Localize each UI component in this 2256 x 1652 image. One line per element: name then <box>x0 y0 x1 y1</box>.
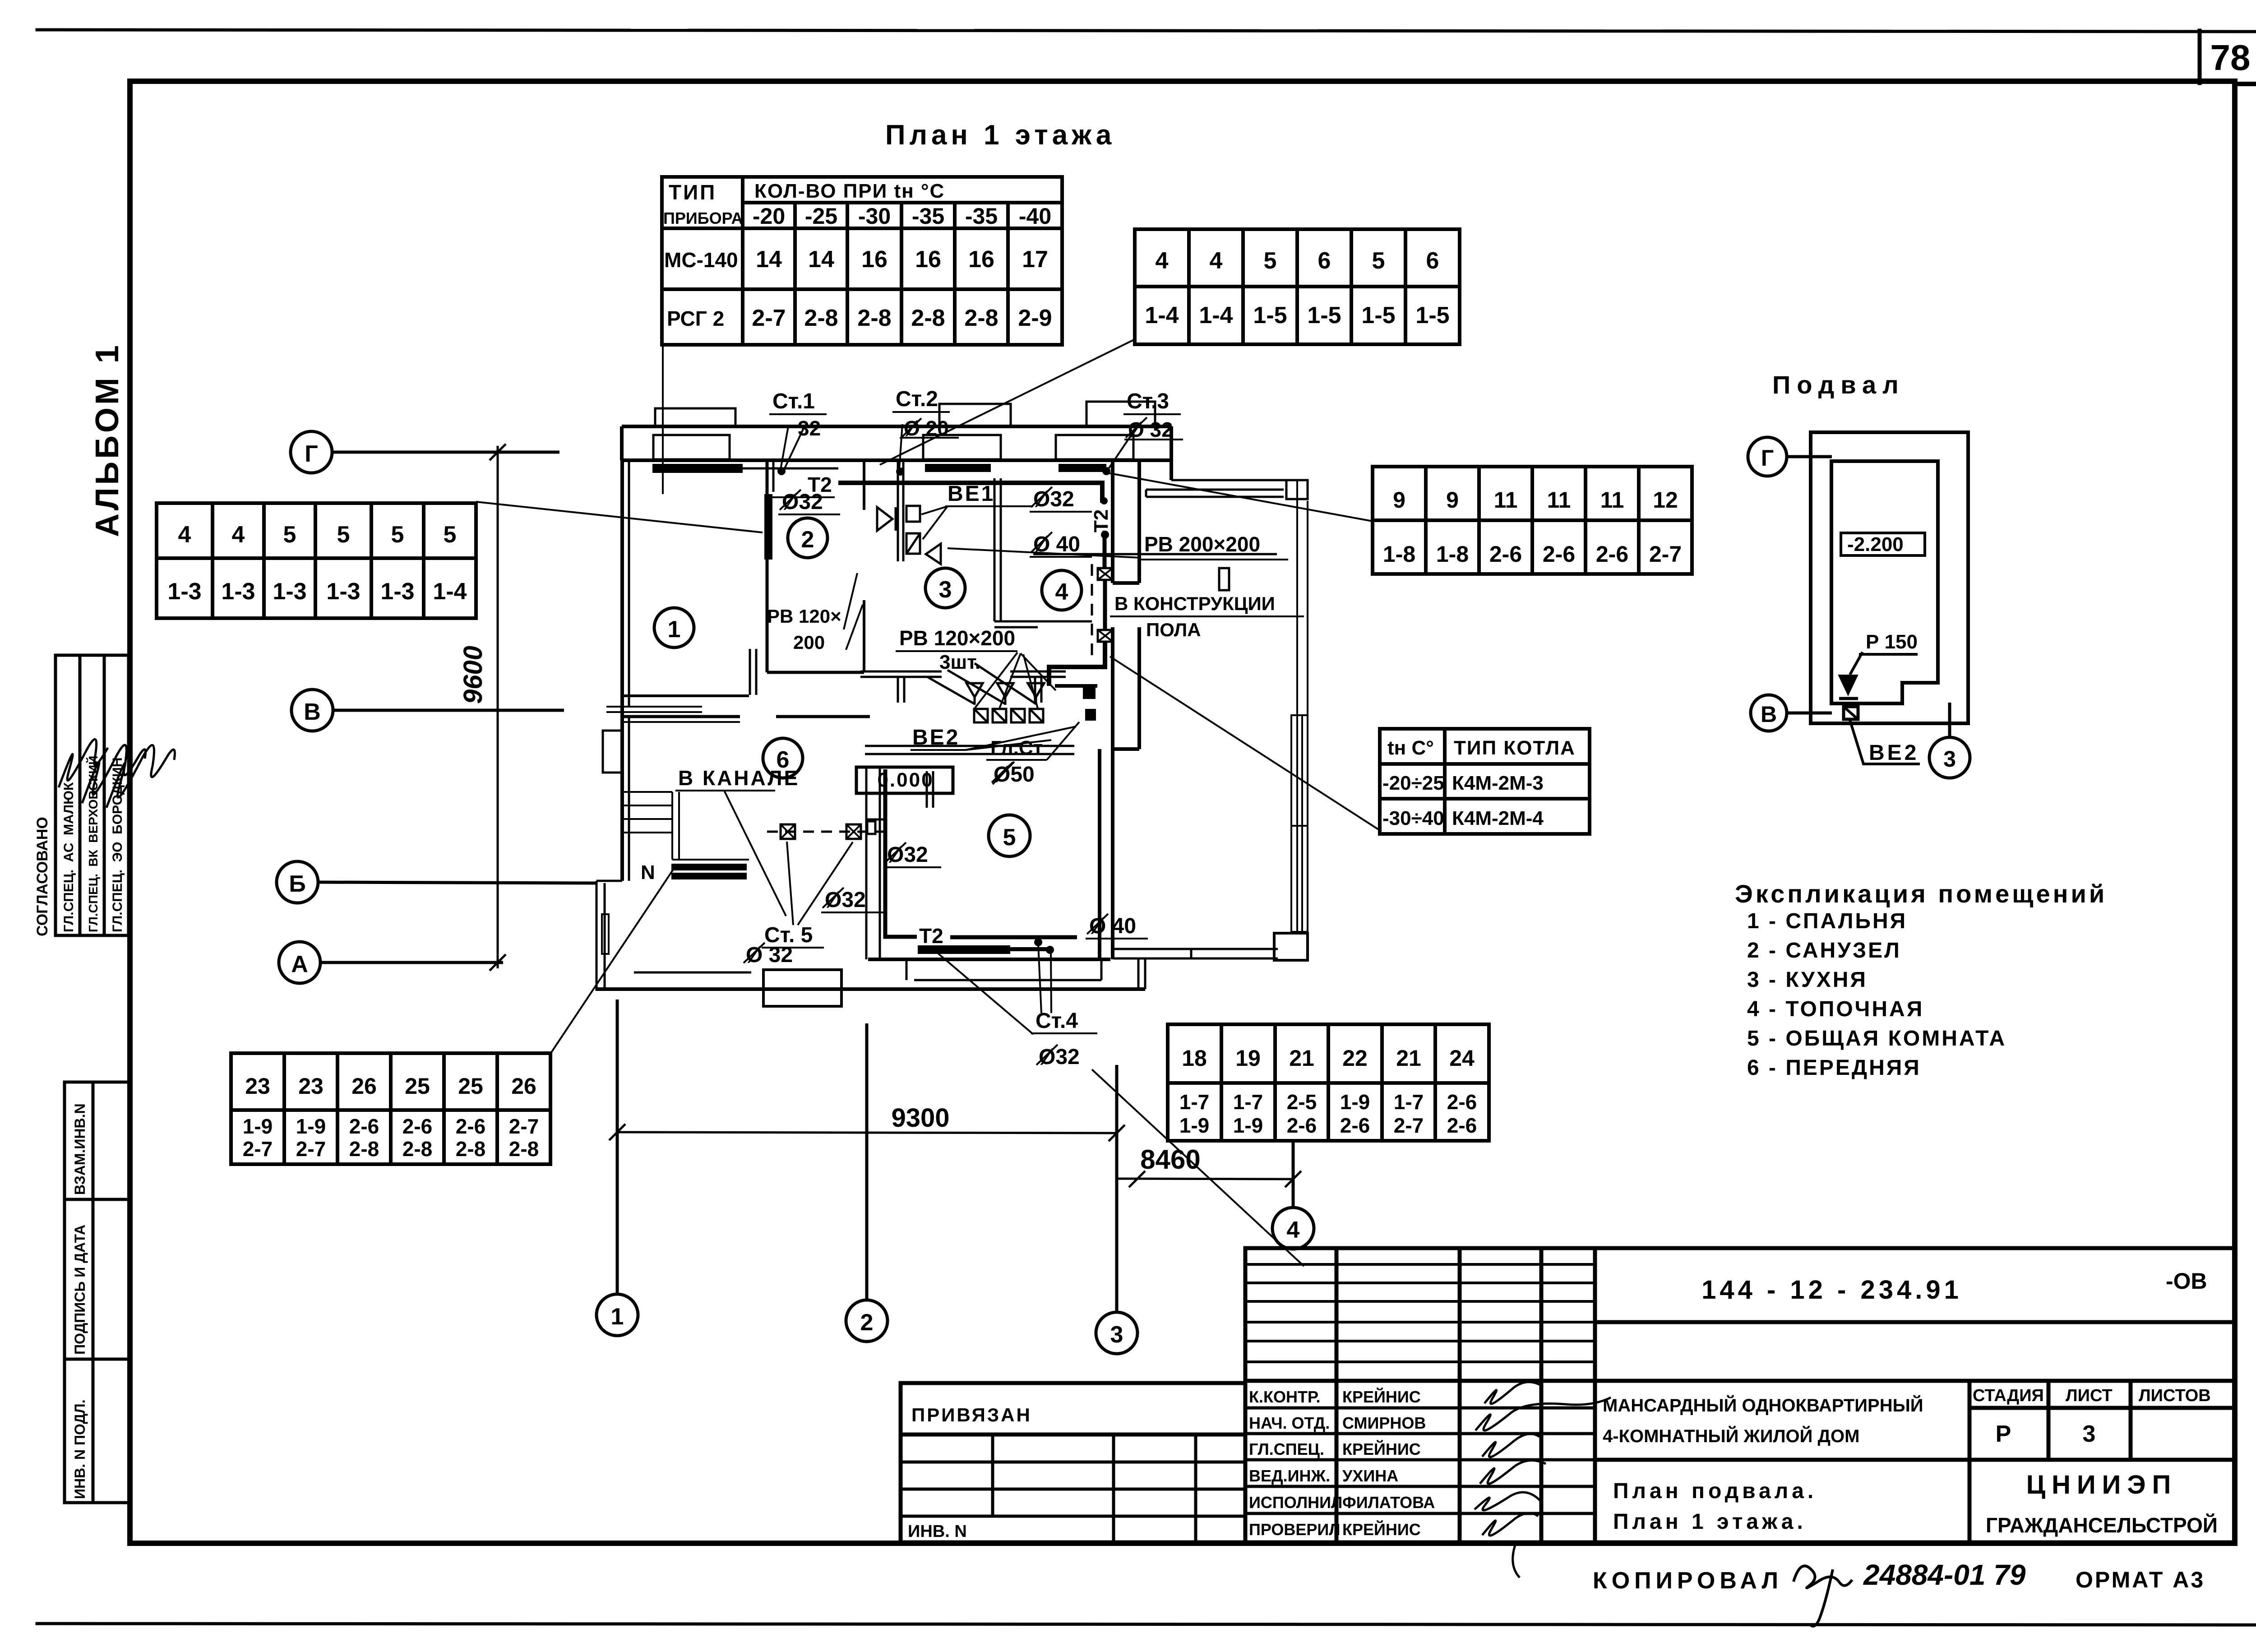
svg-text:11: 11 <box>1547 487 1571 513</box>
svg-text:В: В <box>304 699 321 725</box>
axis circle А <box>279 942 503 983</box>
stairs steps <box>622 792 749 860</box>
svg-text:Ст.4: Ст.4 <box>1036 1009 1078 1033</box>
svg-text:5: 5 <box>1372 248 1385 274</box>
svg-text:9300: 9300 <box>891 1103 949 1133</box>
kitchen vent T symbol 1 <box>860 671 942 703</box>
boiler elbow pipe <box>1049 642 1105 686</box>
svg-text:2-6: 2-6 <box>349 1115 379 1138</box>
small door rect left porch <box>602 914 609 954</box>
svg-text:2-9: 2-9 <box>1018 305 1052 331</box>
копировал footer <box>1593 1559 2205 1594</box>
radiator room2 vertical <box>764 494 772 560</box>
svg-text:17: 17 <box>1022 246 1048 273</box>
room2 left wall <box>766 460 769 562</box>
svg-text:ОРМАТ А3: ОРМАТ А3 <box>2076 1567 2205 1592</box>
room circle 1 <box>654 608 694 648</box>
room1 bottom wall <box>624 694 749 697</box>
sidebar lower box (инв/подпись) <box>65 1082 130 1503</box>
svg-text:План 1 этажа.: План 1 этажа. <box>1613 1510 1807 1534</box>
svg-text:5 - ОБЩАЯ КОМНАТА: 5 - ОБЩАЯ КОМНАТА <box>1747 1027 2006 1050</box>
svg-text:КРЕЙНИС: КРЕЙНИС <box>1342 1439 1421 1458</box>
radiator room3 top <box>925 464 991 472</box>
axis circle 3 bottom <box>1096 1065 1137 1354</box>
svg-text:16: 16 <box>968 246 994 273</box>
svg-text:5: 5 <box>444 522 457 548</box>
svg-text:144 - 12 - 234.91: 144 - 12 - 234.91 <box>1701 1275 1962 1305</box>
extension top wall <box>1146 480 1308 499</box>
svg-text:ТИП: ТИП <box>669 180 717 204</box>
name rows left labels <box>1249 1387 1435 1539</box>
svg-text:14: 14 <box>808 246 834 273</box>
svg-text:1-7: 1-7 <box>1179 1090 1209 1114</box>
svg-text:ВЗАМ.ИНВ.N: ВЗАМ.ИНВ.N <box>72 1103 88 1195</box>
vertical dimension 9600 <box>490 444 506 971</box>
svg-text:Гл.Ст: Гл.Ст <box>990 737 1043 759</box>
svg-text:2-6: 2-6 <box>1287 1114 1317 1137</box>
Ст.1 label <box>772 389 821 440</box>
svg-text:УХИНА: УХИНА <box>1342 1467 1398 1485</box>
svg-text:ИНВ. N: ИНВ. N <box>908 1522 967 1541</box>
ВЕ2 leader <box>1850 720 1920 764</box>
стадия лист листов header <box>1973 1386 2211 1405</box>
horizontal dimension 9300 <box>609 1124 1125 1141</box>
sidebar signatures squiggles <box>59 739 175 808</box>
svg-text:1-3: 1-3 <box>380 578 414 605</box>
svg-text:1-9: 1-9 <box>296 1115 326 1138</box>
pipe stub from radiator1 <box>743 467 838 470</box>
ВЕ1 square upper <box>906 506 920 522</box>
svg-text:14: 14 <box>756 246 782 273</box>
level mark box -2.200 <box>1841 533 1925 555</box>
svg-text:К4М-2М-3: К4М-2М-3 <box>1452 772 1544 794</box>
svg-text:ЛИСТ: ЛИСТ <box>2066 1386 2113 1405</box>
svg-text:3шт.: 3шт. <box>939 651 980 673</box>
thin revision rows <box>1245 1264 1595 1362</box>
svg-text:1-3: 1-3 <box>167 578 201 605</box>
svg-text:2-8: 2-8 <box>402 1137 432 1161</box>
svg-text:21: 21 <box>1396 1046 1421 1071</box>
svg-text:СТАДИЯ: СТАДИЯ <box>1973 1386 2044 1405</box>
room4 inner wall horizontal <box>994 621 1092 627</box>
svg-text:18: 18 <box>1182 1046 1207 1071</box>
svg-text:В КОНСТРУКЦИИ: В КОНСТРУКЦИИ <box>1114 593 1275 614</box>
ВЕ1 flag lower <box>926 544 941 564</box>
bottom step band <box>906 959 1101 980</box>
svg-text:АЛЬБОМ 1: АЛЬБОМ 1 <box>89 342 125 537</box>
canopy double line left <box>606 707 702 712</box>
svg-text:32: 32 <box>798 416 821 440</box>
ВЕ1 label <box>948 482 995 506</box>
svg-text:РВ 200×200: РВ 200×200 <box>1144 532 1260 556</box>
svg-text:Ст.2: Ст.2 <box>896 387 938 411</box>
svg-text:2-7: 2-7 <box>509 1115 539 1138</box>
svg-text:2: 2 <box>801 527 814 553</box>
radiator room4 top <box>1059 464 1106 472</box>
svg-text:Г: Г <box>305 441 318 467</box>
svg-text:1-4: 1-4 <box>1199 302 1233 329</box>
svg-text:КРЕЙНИС: КРЕЙНИС <box>1342 1520 1421 1539</box>
svg-text:ФИЛАТОВА: ФИЛАТОВА <box>1342 1493 1435 1512</box>
svg-text:11: 11 <box>1494 487 1518 513</box>
room circle 2 <box>788 518 828 558</box>
svg-text:План подвала.: План подвала. <box>1613 1479 1817 1503</box>
svg-text:Подвал: Подвал <box>1772 370 1905 399</box>
svg-text:ТИП КОТЛА: ТИП КОТЛА <box>1454 737 1576 759</box>
basement drain square ВЕ2 <box>1844 707 1858 719</box>
svg-text:5: 5 <box>1003 824 1016 851</box>
svg-text:2-6: 2-6 <box>1543 541 1575 567</box>
svg-text:2-6: 2-6 <box>1489 541 1522 567</box>
svg-text:Р: Р <box>1996 1421 2011 1447</box>
svg-text:4: 4 <box>178 522 191 548</box>
svg-text:5: 5 <box>337 522 350 548</box>
page number box divider <box>2198 31 2202 83</box>
svg-text:1-7: 1-7 <box>1394 1090 1424 1114</box>
svg-text:РВ 120×200: РВ 120×200 <box>899 626 1015 650</box>
svg-text:3: 3 <box>1110 1322 1123 1348</box>
svg-text:-30: -30 <box>858 204 891 229</box>
frame top extension to sheet edge <box>2235 82 2256 86</box>
svg-text:3: 3 <box>2083 1421 2096 1447</box>
label underlines <box>675 497 1304 1033</box>
chimney block 1 in wall <box>653 408 735 459</box>
chimney block 2 in wall <box>923 404 1011 459</box>
leader table C to plan <box>476 502 763 532</box>
house right wall double <box>1113 460 1139 583</box>
axis circle В <box>291 689 564 731</box>
svg-text:25: 25 <box>405 1074 430 1099</box>
svg-text:ЛИСТОВ: ЛИСТОВ <box>2139 1386 2211 1405</box>
svg-text:1-5: 1-5 <box>1253 302 1287 329</box>
svg-text:А: А <box>291 951 308 977</box>
svg-text:4-КОМНАТНЫЙ ЖИЛОЙ ДОМ: 4-КОМНАТНЫЙ ЖИЛОЙ ДОМ <box>1603 1425 1859 1446</box>
T2 main pipe top <box>838 483 1102 503</box>
svg-text:Т2: Т2 <box>919 924 943 948</box>
привязан box <box>901 1383 1245 1542</box>
left revision columns <box>1335 1248 1339 1542</box>
leader table D to radiators <box>551 864 677 1052</box>
svg-text:ПОДПИСЬ И ДАТА: ПОДПИСЬ И ДАТА <box>72 1225 88 1355</box>
leader table F to plan <box>1108 473 1373 521</box>
svg-text:12: 12 <box>1653 487 1678 513</box>
svg-text:1-3: 1-3 <box>273 578 306 605</box>
svg-text:24884-01 79: 24884-01 79 <box>1863 1559 2026 1591</box>
ВЕ1 flag upper <box>877 507 892 531</box>
basement axis circle Г <box>1748 437 1832 476</box>
svg-text:19: 19 <box>1235 1046 1261 1071</box>
svg-text:Г: Г <box>1761 445 1774 471</box>
svg-text:9: 9 <box>1446 487 1459 513</box>
axis circle 1 bottom <box>596 1000 638 1336</box>
svg-text:КОЛ-ВО ПРИ tн °С: КОЛ-ВО ПРИ tн °С <box>754 180 945 202</box>
svg-text:КОПИРОВАЛ: КОПИРОВАЛ <box>1593 1568 1783 1594</box>
basement outer wall <box>1811 432 1968 723</box>
svg-text:23: 23 <box>298 1074 324 1099</box>
svg-text:4: 4 <box>232 522 245 548</box>
bottom porch rect <box>763 970 841 1006</box>
svg-text:ВЕ2: ВЕ2 <box>1869 741 1919 765</box>
chimney block 3 in wall <box>1056 402 1155 459</box>
svg-text:1-9: 1-9 <box>243 1115 273 1138</box>
hall top wall <box>622 717 870 722</box>
svg-text:1-8: 1-8 <box>1436 541 1469 567</box>
svg-text:5: 5 <box>391 522 404 548</box>
room circle 3 <box>925 568 965 608</box>
bottom wall right segment inner <box>868 958 1110 961</box>
leader table A to plan <box>662 345 664 494</box>
kitchen room5 divider <box>865 746 1074 754</box>
svg-text:ПРОВЕРИЛ: ПРОВЕРИЛ <box>1249 1520 1341 1539</box>
svg-text:0.000: 0.000 <box>877 769 934 791</box>
sheet bottom thin border line <box>37 1624 2256 1625</box>
svg-text:2-7: 2-7 <box>243 1137 273 1161</box>
РВ200х200 leader arrow <box>948 548 1141 558</box>
svg-text:24: 24 <box>1449 1046 1475 1071</box>
title block outer <box>1245 1248 2234 1542</box>
name rows <box>1245 1379 2234 1383</box>
svg-text:Р 150: Р 150 <box>1866 631 1918 653</box>
svg-text:МС-140: МС-140 <box>664 248 738 272</box>
svg-text:2 - САНУЗЕЛ: 2 - САНУЗЕЛ <box>1747 939 1901 963</box>
top wall outer line <box>622 425 1171 428</box>
svg-text:6 - ПЕРЕДНЯЯ: 6 - ПЕРЕДНЯЯ <box>1747 1056 1921 1080</box>
leader В КАНАЛЕ <box>724 791 786 916</box>
Р150 leader line <box>1850 652 1918 675</box>
svg-text:1-4: 1-4 <box>433 578 467 605</box>
svg-text:-25: -25 <box>805 204 837 229</box>
horizontal dimension 8460 <box>1117 1171 1301 1187</box>
svg-text:РСГ 2: РСГ 2 <box>667 307 724 330</box>
svg-text:ВЕ1: ВЕ1 <box>948 482 995 506</box>
room3 left wall <box>898 460 903 561</box>
svg-text:6: 6 <box>1318 248 1331 274</box>
basement axis circle 3 <box>1929 703 1970 778</box>
svg-text:16: 16 <box>915 246 941 273</box>
svg-text:78: 78 <box>2210 37 2251 78</box>
axis circle 2 bottom <box>846 1023 888 1342</box>
room2 bottom wall <box>767 671 864 674</box>
svg-text:2-5: 2-5 <box>1287 1090 1317 1114</box>
svg-text:tн С°: tн С° <box>1387 737 1434 759</box>
svg-text:НАЧ. ОТД.: НАЧ. ОТД. <box>1249 1414 1330 1432</box>
radiator room6 lower bar <box>671 873 747 879</box>
bottom wall outer long line <box>596 987 1145 991</box>
svg-text:В КАНАЛЕ: В КАНАЛЕ <box>678 766 800 790</box>
sidebar upper box (согласовано signatures) <box>55 655 129 935</box>
basement axis circle В <box>1751 695 1832 731</box>
svg-text:N: N <box>641 861 655 884</box>
partition stub room1/room6 <box>750 649 756 695</box>
funnels leader <box>927 663 1036 704</box>
T2 pipe valve top <box>1098 568 1113 580</box>
svg-text:3: 3 <box>1943 746 1956 772</box>
svg-text:1-5: 1-5 <box>1361 302 1395 329</box>
axis circle Б <box>277 861 596 903</box>
svg-text:11: 11 <box>1600 487 1624 513</box>
svg-text:1-7: 1-7 <box>1233 1090 1263 1114</box>
svg-text:8460: 8460 <box>1140 1144 1200 1175</box>
room5 right side walls <box>1100 627 1139 959</box>
svg-text:Ст.3: Ст.3 <box>1127 389 1169 413</box>
svg-text:ГЛ.СПЕЦ.: ГЛ.СПЕЦ. <box>1249 1440 1324 1458</box>
radiator room5 bottom <box>918 945 1010 954</box>
drain black square <box>1085 709 1096 721</box>
wall connector extension bottom <box>1138 958 1145 989</box>
svg-text:4 - ТОПОЧНАЯ: 4 - ТОПОЧНАЯ <box>1747 997 1924 1021</box>
stage/sheet header <box>1968 1381 1972 1542</box>
junction dots <box>777 467 1110 954</box>
svg-text:2-6: 2-6 <box>1447 1090 1477 1114</box>
room circle 5 <box>989 815 1030 856</box>
svg-text:В: В <box>1761 702 1777 727</box>
svg-text:1-5: 1-5 <box>1415 302 1449 329</box>
svg-text:-20: -20 <box>753 204 785 229</box>
svg-text:-35: -35 <box>965 204 998 229</box>
title block signatures <box>1475 1382 1611 1578</box>
svg-text:16: 16 <box>861 246 888 273</box>
svg-text:2-6: 2-6 <box>1340 1114 1370 1137</box>
svg-text:200: 200 <box>793 632 825 653</box>
funnel 3 <box>1028 683 1044 705</box>
svg-text:2-8: 2-8 <box>964 305 998 331</box>
svg-text:ПОЛА: ПОЛА <box>1146 619 1201 640</box>
svg-text:2-7: 2-7 <box>1649 541 1682 567</box>
svg-text:-ОВ: -ОВ <box>2166 1268 2207 1294</box>
T2 pipe dashed section <box>1103 580 1107 630</box>
svg-text:К.КОНТР.: К.КОНТР. <box>1249 1388 1321 1406</box>
РВ120х200 room2 leader <box>844 573 863 650</box>
svg-text:1 - СПАЛЬНЯ: 1 - СПАЛЬНЯ <box>1747 909 1907 933</box>
svg-text:2-7: 2-7 <box>1394 1114 1424 1137</box>
svg-text:ПРИБОРА: ПРИБОРА <box>663 209 743 227</box>
svg-text:-35: -35 <box>912 204 944 229</box>
svg-text:5: 5 <box>283 522 296 548</box>
boiler black square <box>1083 685 1096 699</box>
svg-text:2-8: 2-8 <box>456 1137 485 1161</box>
svg-text:Экспликация помещений: Экспликация помещений <box>1735 879 2107 908</box>
T2 riser pipe room5 <box>885 769 1077 937</box>
svg-text:К4М-2М-4: К4М-2М-4 <box>1452 807 1544 829</box>
radiator room1 top <box>652 464 743 473</box>
sheet top thin border line <box>37 30 2256 32</box>
svg-text:26: 26 <box>511 1074 536 1099</box>
svg-text:Б: Б <box>289 871 305 897</box>
svg-text:2-8: 2-8 <box>911 305 945 331</box>
svg-text:1-5: 1-5 <box>1307 302 1341 329</box>
left porch wall lower <box>596 881 622 991</box>
room circle 6 <box>763 738 803 778</box>
leader Ст.4 long diagonal <box>1092 1069 1304 1266</box>
svg-text:План 1 этажа: План 1 этажа <box>885 120 1115 151</box>
doc number row separator <box>1595 1320 2234 1324</box>
extension inner partition horizontal <box>1033 553 1277 555</box>
svg-text:Ст.1: Ст.1 <box>772 389 815 413</box>
room2 right wall <box>863 460 865 672</box>
svg-text:1-9: 1-9 <box>1179 1114 1209 1137</box>
entrance door bump left <box>603 731 622 773</box>
axis circle Г <box>291 431 559 473</box>
leader Ст.4 to radiator <box>938 944 1051 1034</box>
svg-text:1-3: 1-3 <box>326 578 360 605</box>
porch face line <box>634 972 751 974</box>
svg-text:26: 26 <box>351 1074 377 1099</box>
svg-text:2-6: 2-6 <box>402 1115 432 1138</box>
dashed line in wall <box>1091 564 1093 663</box>
svg-text:4: 4 <box>1287 1217 1300 1243</box>
Ст.5 leaders <box>787 842 853 925</box>
svg-text:КРЕЙНИС: КРЕЙНИС <box>1342 1387 1421 1406</box>
svg-text:9: 9 <box>1393 487 1405 513</box>
extension right wall window band <box>1290 480 1308 933</box>
svg-text:Т2: Т2 <box>1090 509 1112 532</box>
svg-text:ЦНИИЭП: ЦНИИЭП <box>2026 1470 2177 1499</box>
basement funnel symbol <box>1840 676 1856 693</box>
svg-text:2-7: 2-7 <box>296 1137 326 1161</box>
svg-text:-2.200: -2.200 <box>1847 533 1904 555</box>
room5 left wall <box>866 767 880 959</box>
svg-text:2-7: 2-7 <box>752 305 786 331</box>
room5 top-left corner walls <box>865 771 933 819</box>
svg-text:4: 4 <box>1210 248 1223 274</box>
svg-text:ГЛ.СПЕЦ. АС МАЛЮК: ГЛ.СПЕЦ. АС МАЛЮК <box>61 782 76 932</box>
svg-text:9600: 9600 <box>458 646 488 704</box>
svg-text:1: 1 <box>668 616 681 643</box>
room circle 4 <box>1042 570 1082 610</box>
svg-text:СМИРНОВ: СМИРНОВ <box>1342 1414 1426 1432</box>
svg-text:1-3: 1-3 <box>221 578 255 605</box>
svg-text:22: 22 <box>1342 1046 1368 1071</box>
svg-text:25: 25 <box>458 1074 483 1099</box>
svg-text:23: 23 <box>245 1074 270 1099</box>
svg-text:-30÷40: -30÷40 <box>1382 807 1444 829</box>
svg-text:2-6: 2-6 <box>1447 1114 1477 1137</box>
svg-text:ВЕД.ИНЖ.: ВЕД.ИНЖ. <box>1249 1467 1330 1485</box>
svg-text:2-8: 2-8 <box>857 305 891 331</box>
svg-text:1-4: 1-4 <box>1145 302 1179 329</box>
svg-text:2-8: 2-8 <box>349 1137 379 1161</box>
top wall inner line <box>622 458 1171 462</box>
crossed squares row <box>974 709 1043 722</box>
svg-text:1-9: 1-9 <box>1340 1090 1370 1114</box>
room3/room4 partition <box>994 478 1001 621</box>
копировал signature <box>1794 1566 1852 1626</box>
svg-text:3 - КУХНЯ: 3 - КУХНЯ <box>1747 968 1868 992</box>
Ст.2 label <box>896 387 949 440</box>
svg-text:6: 6 <box>1426 248 1439 274</box>
svg-text:4: 4 <box>1055 579 1068 605</box>
radiator room6 upper bar <box>671 864 747 870</box>
svg-text:ГРАЖДАНСЕЛЬСТРОЙ: ГРАЖДАНСЕЛЬСТРОЙ <box>1986 1513 2218 1537</box>
svg-text:ГЛ.СПЕЦ. ЭО БОРОДКИН: ГЛ.СПЕЦ. ЭО БОРОДКИН <box>110 757 125 932</box>
axis circle 4 bottom <box>1272 1143 1314 1249</box>
ВЕ1 square lower hatched <box>906 533 920 554</box>
svg-text:21: 21 <box>1289 1046 1314 1071</box>
leader table B to plan <box>880 339 1135 465</box>
extension bottom wall double <box>1114 949 1278 958</box>
svg-text:1: 1 <box>611 1304 624 1330</box>
svg-text:3: 3 <box>939 577 952 603</box>
T2 pipe valve 2 <box>1098 630 1113 642</box>
svg-text:2-6: 2-6 <box>456 1115 485 1138</box>
3шт leader fan <box>975 652 1056 708</box>
funnel 1 <box>966 683 983 705</box>
svg-text:ПРИВЯЗАН: ПРИВЯЗАН <box>911 1404 1032 1425</box>
svg-text:-20÷25: -20÷25 <box>1382 772 1444 794</box>
svg-text:ИНВ. N ПОДЛ.: ИНВ. N ПОДЛ. <box>72 1399 88 1499</box>
basement inner wall <box>1831 461 1938 703</box>
svg-text:ГЛ.СПЕЦ. ВК ВЕРХОВСКИЙ: ГЛ.СПЕЦ. ВК ВЕРХОВСКИЙ <box>86 756 100 932</box>
